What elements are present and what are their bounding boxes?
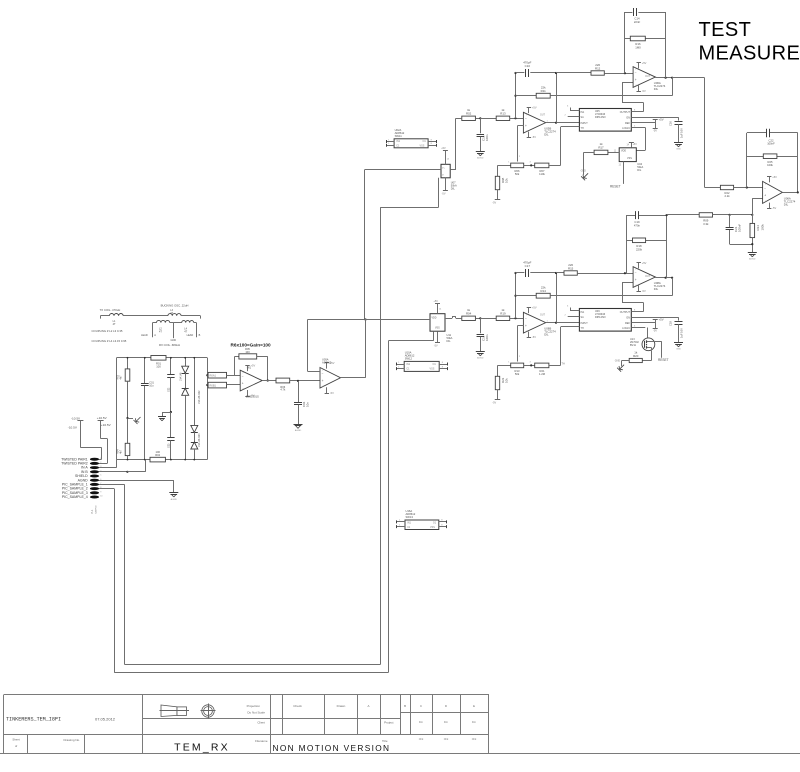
svg-text:SW13: SW13 <box>406 515 414 519</box>
wire IC EN to C16 <box>631 117 678 120</box>
wire gain row left corner <box>498 165 511 176</box>
connector pad TWISTED PAIR1 <box>61 457 102 461</box>
wire IC REF stub <box>631 322 655 324</box>
label C03 <box>167 443 170 448</box>
svg-text:+: + <box>525 324 527 328</box>
junction top row x144.8 <box>144 357 146 359</box>
wire rail c2 bot <box>170 441 172 460</box>
resistor R01 100 top <box>151 356 166 361</box>
resistor R13 (1k) input B <box>496 108 510 120</box>
svg-text:+5V: +5V <box>642 61 647 65</box>
wire filter to op-amp3 plus <box>752 198 762 215</box>
svg-text:IN1: IN1 <box>581 111 585 114</box>
label D04 1N4148 <box>198 433 201 447</box>
-5V tick at U11 <box>435 342 440 344</box>
svg-text:1N4148: 1N4148 <box>180 372 183 381</box>
inductor L4 <box>173 321 196 323</box>
wire rail r2 bot seg <box>127 456 129 460</box>
wire R24 top <box>752 215 754 224</box>
svg-text:EN: EN <box>627 117 631 120</box>
svg-text:AGND: AGND <box>477 157 484 160</box>
supply bar minus10 <box>77 420 83 422</box>
wire IC REF stub <box>631 122 655 124</box>
label TH net <box>562 362 566 365</box>
svg-text:+5V: +5V <box>532 306 537 310</box>
connector pad PIC_SAMPLE_4 <box>62 495 103 499</box>
wire R21 to IC pin vert c2 <box>549 365 561 367</box>
wire op-amp2 output row <box>655 77 672 79</box>
wire rail left outer <box>116 358 118 460</box>
svg-text:−: − <box>635 271 637 275</box>
capacitor C04 10n <box>294 401 309 407</box>
op-amp U08B TLC2274 stage1 <box>523 312 545 333</box>
node C21 top <box>729 214 731 216</box>
label R02 100 <box>155 450 160 457</box>
svg-text:-10.5V: -10.5V <box>68 425 78 429</box>
svg-text:INPUT: INPUT <box>581 322 589 325</box>
node A top <box>514 72 516 74</box>
inductor L3 bucking <box>123 314 200 319</box>
node gain junction <box>530 164 532 166</box>
ground below C04 <box>294 425 303 433</box>
svg-text:Drawn: Drawn <box>337 704 346 708</box>
node A mid <box>514 295 516 297</box>
wire node B vertical <box>556 273 558 323</box>
wire C16 to ground <box>678 324 680 342</box>
label 14 pin U04 <box>627 144 638 147</box>
resistor R02 (1k) input A <box>462 108 476 120</box>
svg-text:−: − <box>242 374 244 378</box>
label L4 <box>184 327 187 333</box>
svg-text:OUT: OUT <box>540 114 546 117</box>
wire jumper to comp plus <box>227 384 241 386</box>
svg-text:4T: 4T <box>159 330 162 333</box>
svg-text:Sheet: Sheet <box>12 738 20 742</box>
node follower out to chains <box>364 318 366 320</box>
resistor R05 100 feedback <box>239 354 257 359</box>
svg-text:-5V: -5V <box>653 329 657 333</box>
svg-text:DIL: DIL <box>451 186 456 190</box>
wire pad IN A to rail <box>99 460 117 468</box>
transistor U13 2N7002 MOSFET <box>642 338 655 351</box>
title block date <box>95 717 116 722</box>
resistor R16 1M0 <box>630 36 645 41</box>
svg-text:VSS: VSS <box>627 157 632 160</box>
wire LOGIC down to Q gate <box>647 328 649 340</box>
connector pad IN A <box>81 466 102 470</box>
node fb right <box>665 277 667 279</box>
svg-text:TX COIL..470uH: TX COIL..470uH <box>100 308 121 312</box>
wire rail c1 bot <box>144 386 146 460</box>
svg-text:+5V: +5V <box>251 364 256 368</box>
svg-text:PIC_SAMPLE_4: PIC_SAMPLE_4 <box>62 495 88 499</box>
label D02 1N4148 <box>198 390 201 404</box>
label R18 220k <box>636 244 643 252</box>
label RESET net chain2 <box>658 358 669 362</box>
svg-text:2.2k: 2.2k <box>724 194 730 198</box>
node op-amp3 out <box>797 191 799 193</box>
ground below C13 <box>476 152 485 160</box>
capacitor C21 100nF <box>726 224 742 232</box>
wire C13 to ground <box>480 137 482 152</box>
node B at output <box>555 122 557 124</box>
wire R08 down stub <box>497 190 499 200</box>
IC U07 analog switch chain1 <box>441 164 450 178</box>
title block revision grid letters <box>404 704 475 708</box>
wire IC pin2 stub <box>568 316 580 318</box>
capacitor C16 1uF 16V <box>675 122 683 125</box>
svg-text:4k7: 4k7 <box>120 375 123 380</box>
IC U04 switch box <box>619 148 636 162</box>
wire pad PIC_SAMPLE_2 to loop outer <box>99 488 114 490</box>
resistor R06s 4.7k <box>276 378 290 383</box>
label U01 <box>247 366 252 369</box>
resistor R22 2.2k <box>720 185 733 189</box>
wire IC pin4 to gain row <box>561 327 580 366</box>
IC U11 analog switch chain2 <box>430 314 445 332</box>
svg-text:DIL: DIL <box>637 168 642 172</box>
svg-text:-5V: -5V <box>442 192 446 195</box>
label R07 110k <box>539 169 545 176</box>
wire IN B gray to cap rail <box>127 460 145 472</box>
wire node B vertical <box>556 73 558 123</box>
svg-text:50k: 50k <box>515 372 520 376</box>
wire pad AGND to ground <box>99 480 174 492</box>
label -5V below R08 <box>492 201 496 204</box>
label R04 <box>116 449 122 454</box>
label R09 3.3k <box>703 218 709 226</box>
wire op-amp1 output to IC <box>546 322 580 324</box>
svg-text:+5V: +5V <box>532 106 537 110</box>
title block sheet cell <box>12 738 80 749</box>
node B top <box>555 272 557 274</box>
label +5V U07 <box>441 147 450 160</box>
svg-text:RESET: RESET <box>610 184 621 188</box>
wire fb1 right vertical <box>665 12 667 78</box>
svg-text:TINKERERS_TEM_I8PI: TINKERERS_TEM_I8PI <box>6 717 61 723</box>
label U05B TLC2274 <box>544 127 556 137</box>
wire stub2 to pad2 <box>99 420 108 463</box>
node op-amp3 minus <box>746 186 748 188</box>
label 13 pin U04 <box>619 165 622 167</box>
svg-text:−: − <box>635 71 637 75</box>
ground below C13 <box>476 352 485 360</box>
label U06A TLC2274 <box>654 81 666 91</box>
title block projection cone symbol <box>160 705 190 717</box>
label LEAD A <box>141 334 156 337</box>
wire U07 -5V stub <box>445 178 447 191</box>
svg-text:100n: 100n <box>485 134 489 141</box>
svg-text:LOGIC: LOGIC <box>622 127 630 130</box>
wire RA to junction <box>475 118 480 120</box>
svg-text:-5V: -5V <box>532 135 536 139</box>
svg-text:VSS: VSS <box>430 526 435 529</box>
svg-text:+10.5V: +10.5V <box>101 423 112 427</box>
svg-text:-5V: -5V <box>330 391 334 395</box>
svg-text:BUCKING OSC..22uH: BUCKING OSC..22uH <box>161 304 189 308</box>
svg-text:IN1: IN1 <box>396 140 400 143</box>
svg-text:VSS: VSS <box>435 328 440 330</box>
svg-text:GND: GND <box>171 339 177 342</box>
svg-text:REF: REF <box>625 322 630 325</box>
svg-text:6DB2301S: 6DB2301S <box>246 394 259 398</box>
svg-text:AGND: AGND <box>749 258 756 261</box>
svg-text:R20: R20 <box>633 354 639 358</box>
node gain junction c2 <box>530 364 532 366</box>
wire IC pin1 stub <box>570 308 579 311</box>
svg-text:IN1: IN1 <box>407 522 411 525</box>
wire U04 top pin <box>631 143 633 148</box>
wire R12 to op-amp2 minus <box>604 73 633 75</box>
wire input row to RA <box>456 118 462 120</box>
node A top <box>514 272 516 274</box>
wire fb2 res row <box>626 240 667 242</box>
wire follower minus fb <box>308 320 365 372</box>
label R22 2.2k <box>724 191 730 198</box>
svg-text:R02: R02 <box>466 112 472 116</box>
resistor R11 22k <box>536 85 550 98</box>
ground below filter <box>748 253 757 261</box>
text TEST MEASURE heading <box>699 19 800 64</box>
svg-text:R12: R12 <box>595 66 601 70</box>
ground at AGND pad wire <box>169 493 178 501</box>
op-amp U05A AD8615 follower <box>320 368 341 389</box>
capacitor C15 100n <box>477 334 489 341</box>
label C16 value <box>669 121 684 138</box>
op-amp U05B TLC2274 stage1 <box>523 112 545 133</box>
capacitor C18 1uF 16V <box>675 322 683 325</box>
junction top row x194.3 <box>193 357 195 359</box>
svg-text:MEASURE: MEASURE <box>699 42 800 64</box>
svg-text:R11: R11 <box>541 89 546 93</box>
label C02 <box>167 387 170 392</box>
wire junction to RB <box>480 118 496 120</box>
svg-text:1N4148 D04: 1N4148 D04 <box>198 433 201 447</box>
wire node A vertical <box>515 73 517 118</box>
node fb right <box>665 77 667 79</box>
node A mid <box>514 95 516 97</box>
label R25 100k <box>767 160 773 167</box>
svg-text:RX COIL..680uH: RX COIL..680uH <box>159 343 180 347</box>
capacitor C13 100n <box>477 134 489 141</box>
node rail c2 gnd tap <box>170 411 172 413</box>
wire stub1 to pad1 <box>80 421 101 460</box>
wire node A to R11 <box>516 95 537 97</box>
svg-text:SA: SA <box>581 316 585 319</box>
svg-text:-5V: -5V <box>434 344 438 347</box>
svg-text:LOGIC: LOGIC <box>622 327 630 330</box>
title block NON MOTION VERSION <box>273 743 391 753</box>
svg-text:R02: R02 <box>155 453 160 457</box>
svg-text:U01: U01 <box>247 366 252 369</box>
wire junction to RB <box>480 318 496 320</box>
label L1 <box>113 320 116 326</box>
capacitor C19 470n <box>636 211 639 219</box>
capacitor C02 1u upper <box>167 375 174 378</box>
wire REF tick vertical <box>655 320 657 329</box>
svg-text:+: + <box>525 124 527 128</box>
svg-text:TEM_RX: TEM_RX <box>174 742 230 754</box>
label IC pin5 <box>634 326 636 328</box>
op-amp U06A TLC2274 output <box>763 181 783 203</box>
resistor R24 100k <box>750 223 764 237</box>
svg-text:R04: R04 <box>116 449 119 454</box>
svg-text:REF: REF <box>625 122 630 125</box>
svg-text:+: + <box>635 78 637 82</box>
svg-text:OUT: OUT <box>645 275 651 278</box>
svg-text:C17: C17 <box>525 264 531 268</box>
wire bottom filter row <box>730 238 753 253</box>
svg-text:DIL: DIL <box>544 333 549 337</box>
svg-text:VDD: VDD <box>432 317 437 319</box>
wire fb2 right vertical <box>666 215 668 278</box>
junction top row x185.2 <box>184 357 186 359</box>
svg-text:-5V: -5V <box>642 289 646 293</box>
label -5V U07 <box>442 192 446 195</box>
label GND center tap <box>171 339 177 342</box>
svg-text:110k: 110k <box>539 172 545 176</box>
junction bottom row x194.3 <box>193 459 195 461</box>
op-amp U06A power <box>767 175 777 210</box>
svg-text:+5V: +5V <box>433 300 438 303</box>
resistor R04 4k7 lower <box>125 443 130 455</box>
svg-text:COUPLING # L4 L3.15 0.95: COUPLING # L4 L3.15 0.95 <box>92 339 127 343</box>
text bucking oscillator note <box>161 304 189 308</box>
wire IC LOGIC stub <box>631 327 645 329</box>
wire junction down to C13 <box>480 118 482 133</box>
resistor R19 (1k) input B <box>496 308 510 320</box>
op-amp2 U08A power pins <box>637 261 647 293</box>
label R03 <box>116 374 122 379</box>
wire out2 down to R11 row <box>672 278 674 296</box>
svg-text:E: E <box>473 704 475 708</box>
svg-text:10u: 10u <box>149 385 154 388</box>
svg-text:-5V: -5V <box>642 89 646 93</box>
wire IC OUTPUT zigzag to op-amp2 <box>622 82 644 111</box>
wire C16 to ground <box>678 124 680 142</box>
label IC pin8 <box>634 310 636 312</box>
label C16 value <box>669 321 684 338</box>
resistor R02 100 bottom <box>150 457 165 462</box>
node out2 <box>671 277 673 279</box>
svg-text:R19: R19 <box>500 312 506 316</box>
node filter bottom <box>751 243 753 245</box>
wire op-amp1 minus input <box>518 125 524 161</box>
title block project name <box>6 717 61 723</box>
svg-text:LEAD: LEAD <box>141 334 148 337</box>
svg-text:LEAD: LEAD <box>187 334 194 337</box>
wire fb2 left vertical <box>626 215 628 273</box>
diode D04 1N4148 <box>191 442 198 449</box>
svg-text:Drn: Drn <box>472 720 477 724</box>
wire R23 down stub <box>497 390 499 400</box>
label U04 50kA <box>637 162 643 172</box>
svg-text:OUTPUT: OUTPUT <box>620 111 631 114</box>
label -5V U11 <box>434 344 438 347</box>
label R01 100 <box>156 361 161 368</box>
connector pad TWISTED PAIR2 <box>61 462 102 466</box>
svg-text:OUT: OUT <box>540 314 546 317</box>
label -5V below R23 <box>492 401 496 404</box>
node IN B rail <box>126 471 128 473</box>
+5V tick at U07 <box>443 150 448 152</box>
wire RA to junction <box>475 318 480 320</box>
svg-text:4T: 4T <box>184 330 187 333</box>
svg-text:GND: GND <box>676 349 681 351</box>
capacitor C17 470pF <box>523 261 531 277</box>
svg-text:SW11: SW11 <box>395 134 403 138</box>
jumper R0B1 <box>208 382 226 388</box>
wire U11 right pin to RA <box>445 317 456 319</box>
svg-text:EN: EN <box>627 317 631 320</box>
ground mid network <box>158 417 166 421</box>
svg-text:22nF: 22nF <box>634 20 641 24</box>
svg-text:AGND: AGND <box>171 498 178 501</box>
resistor R12 220 <box>591 63 604 75</box>
+5V tick at U11 <box>435 303 440 305</box>
label U08A TLC2274 <box>654 281 666 291</box>
node input junction <box>479 317 481 319</box>
svg-text:50k: 50k <box>515 172 520 176</box>
label R13 50k <box>515 369 520 376</box>
connector pad AGND <box>78 478 103 482</box>
label U06A TLC2274 <box>784 197 796 207</box>
wire REF tick vertical <box>655 120 657 129</box>
svg-text:+5V: +5V <box>441 147 446 150</box>
svg-text:100: 100 <box>156 364 161 368</box>
svg-text:OUTPUT: OUTPUT <box>620 311 631 314</box>
svg-text:TH: TH <box>562 362 566 365</box>
wire C04 to gnd <box>298 405 300 424</box>
-5V tick at REF <box>653 328 658 330</box>
wire R09 to C21 node <box>713 214 730 216</box>
svg-text:TH: TH <box>581 327 584 330</box>
svg-text:SW12: SW12 <box>405 357 413 361</box>
svg-text:AGND: AGND <box>477 357 484 360</box>
wire U07 +5V stub <box>445 150 447 164</box>
svg-text:−: − <box>764 186 766 190</box>
wire U07 bottom-left pin down <box>438 178 440 208</box>
wire IC EN to C16 <box>631 317 678 320</box>
node tap upper <box>206 374 208 376</box>
resistor R20 1k <box>629 350 642 362</box>
wire net top row <box>117 357 208 359</box>
wire LEAD B vertical <box>196 323 198 338</box>
svg-text:Client: Client <box>257 721 265 725</box>
svg-text:-5V: -5V <box>492 201 496 204</box>
svg-text:DIL: DIL <box>654 87 659 91</box>
wire fb1 left vertical <box>624 12 626 73</box>
svg-text:DIL: DIL <box>544 133 549 137</box>
svg-text:R0B1: R0B1 <box>210 384 217 388</box>
svg-text:R03: R03 <box>116 374 119 379</box>
svg-text:VSS: VSS <box>430 368 435 371</box>
svg-text:+5V: +5V <box>659 318 664 322</box>
op-amp U05B power pins <box>527 106 537 140</box>
resistor R17 1k <box>594 142 608 154</box>
svg-text:NON MOTION VERSION: NON MOTION VERSION <box>273 743 391 753</box>
svg-text:Drn: Drn <box>419 720 424 724</box>
title block revision grid Drn row <box>419 720 477 724</box>
wire jumper to comp minus <box>227 375 241 377</box>
wire node A to R11 <box>516 295 537 297</box>
resistor R21 1.2M <box>535 363 549 368</box>
label IC pin8 <box>634 110 636 112</box>
svg-text:D: D <box>445 704 447 708</box>
connector pad PIC_SAMPLE_1 <box>62 483 102 487</box>
wire LEAD A vertical <box>152 323 154 338</box>
op-amp U01 booster <box>240 370 262 391</box>
